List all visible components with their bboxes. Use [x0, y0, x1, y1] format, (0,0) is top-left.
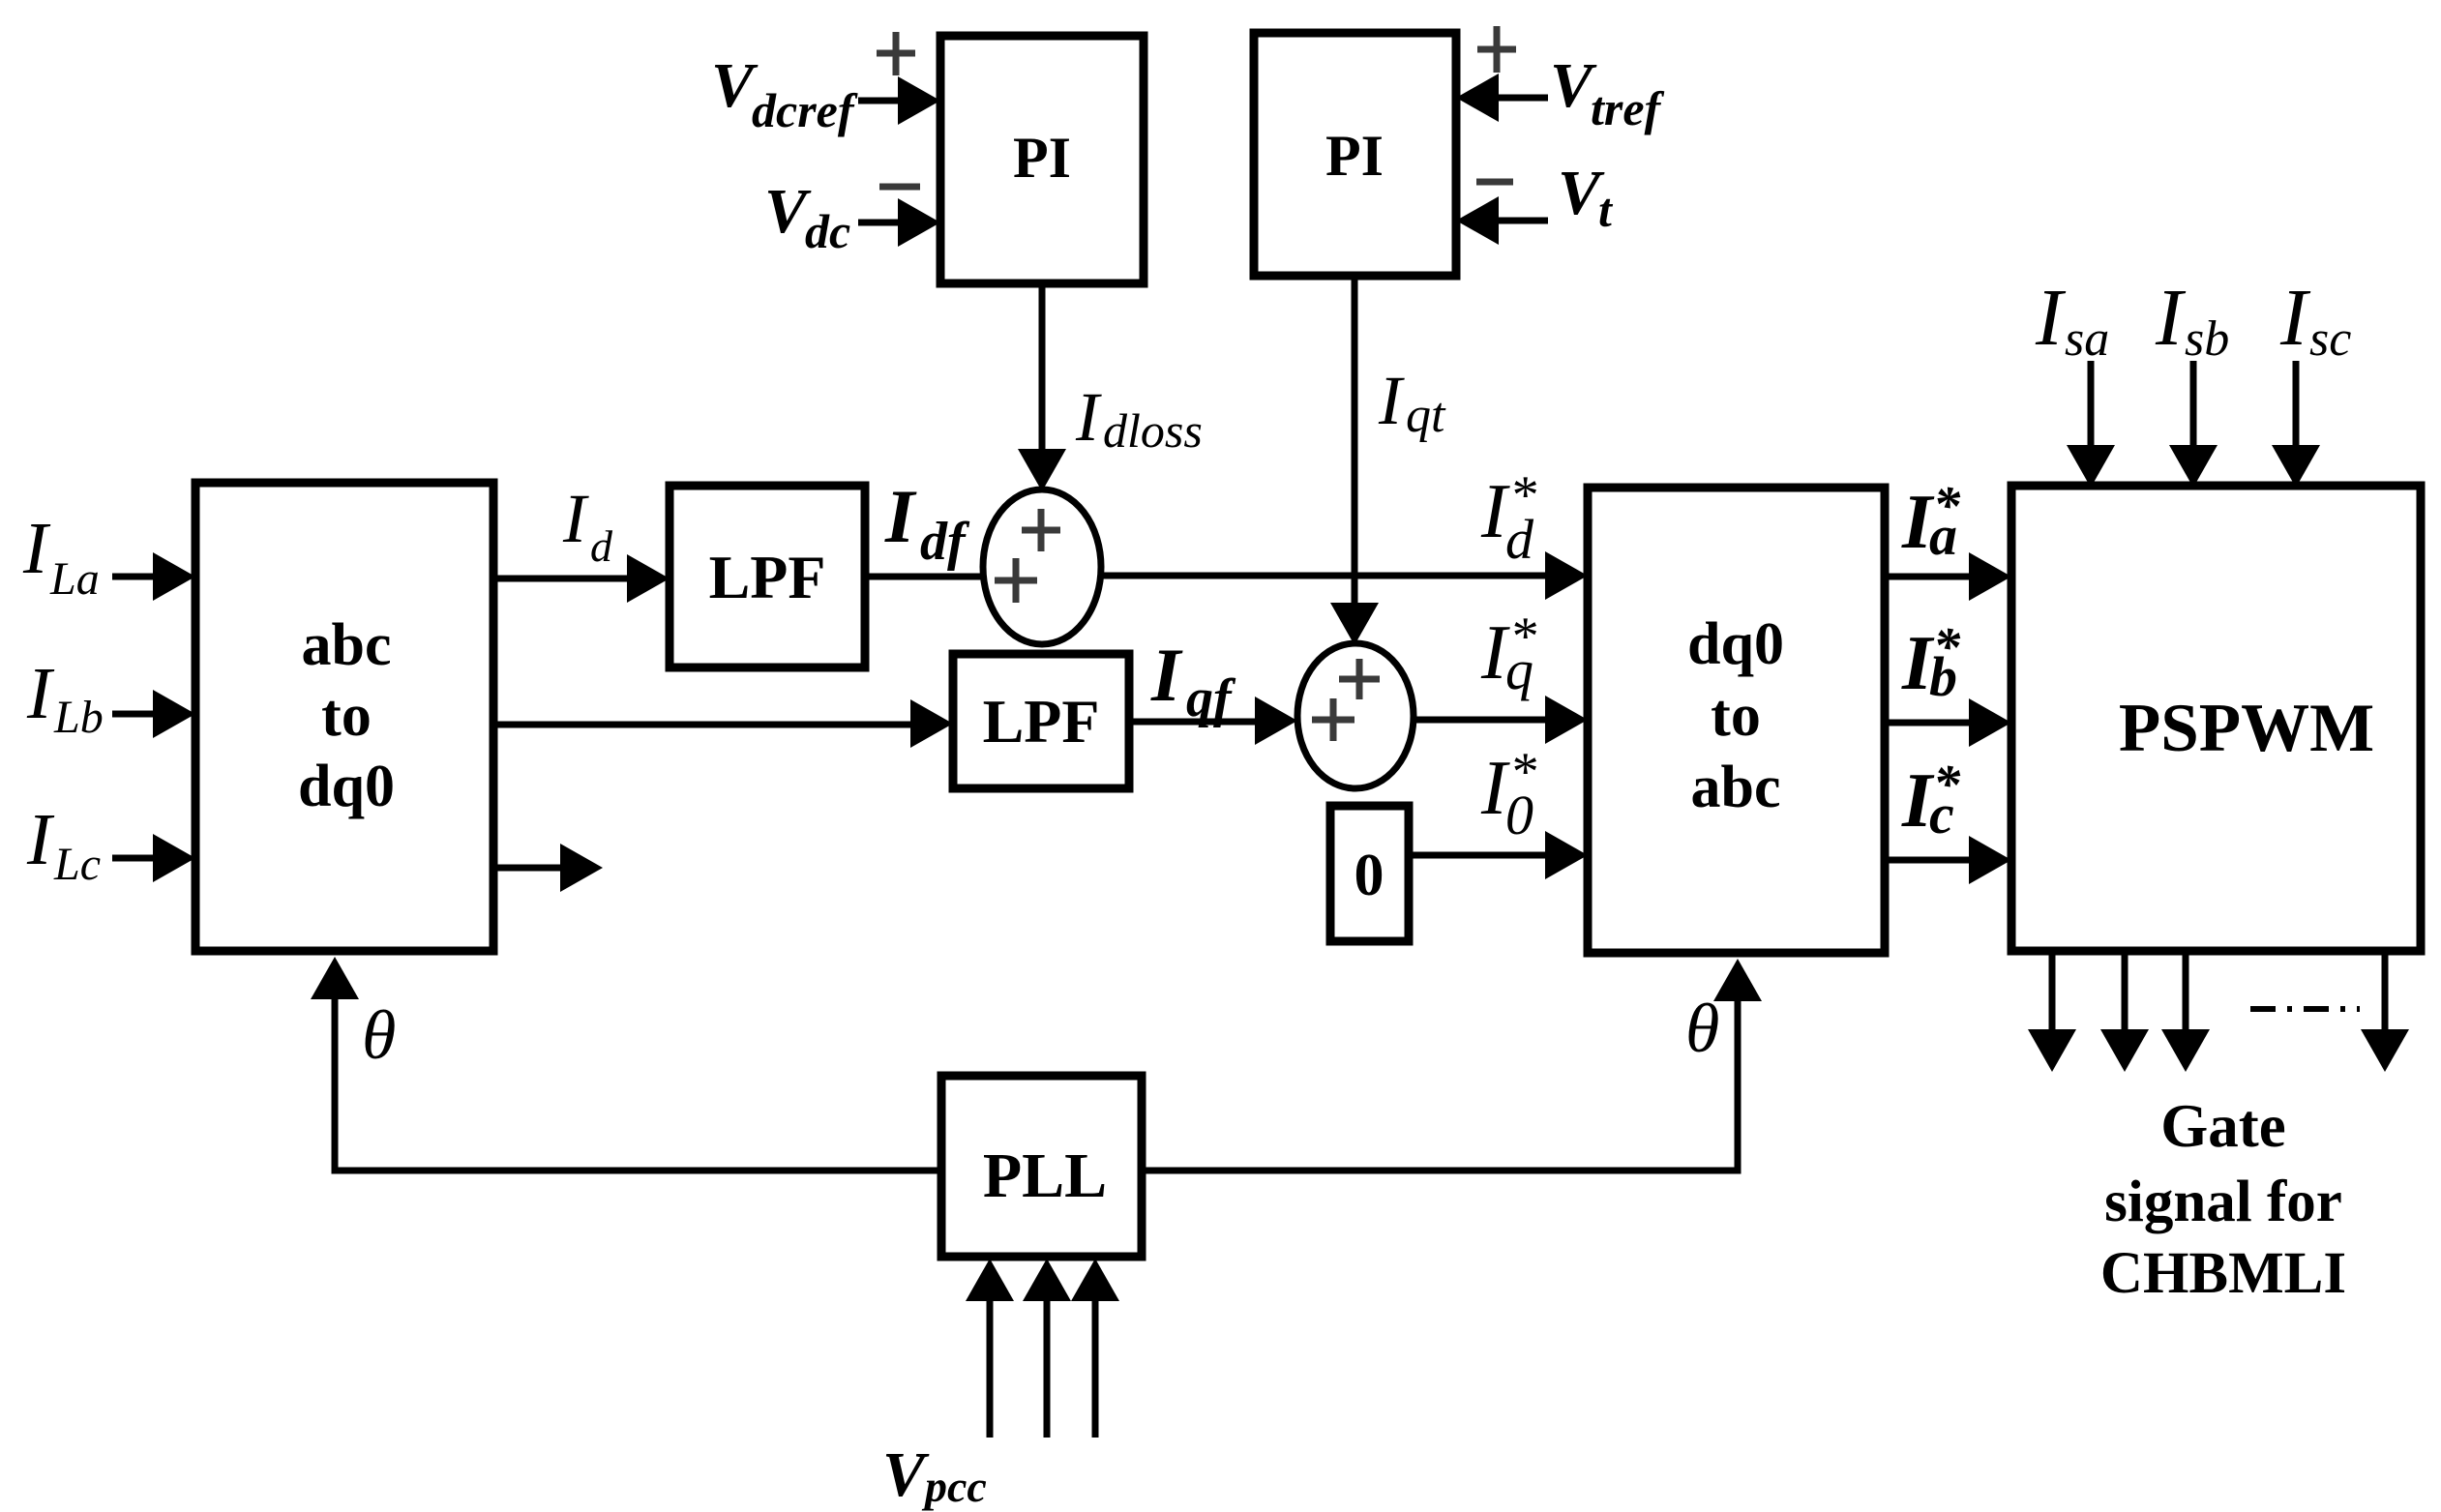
svg-text:q: q	[1505, 638, 1533, 701]
label ILc	[26, 799, 101, 890]
wire ILa into abc-dq0	[112, 552, 195, 601]
PI controller U2 (terminal voltage) box	[1254, 33, 1456, 276]
label ILb	[26, 653, 104, 743]
label Iqf	[1150, 633, 1236, 728]
wire ILc into abc-dq0	[112, 834, 195, 882]
dq0 to abc transform block U4	[1588, 488, 1885, 953]
svg-text:0: 0	[1354, 843, 1384, 908]
svg-text:I: I	[26, 799, 55, 880]
dash-dot ellipsis between gate outputs	[2250, 1006, 2360, 1012]
svg-text:to: to	[1711, 683, 1761, 749]
svg-text:dloss: dloss	[1103, 403, 1203, 458]
minus sign at PI U2 input	[1476, 179, 1513, 186]
svg-text:abc: abc	[1691, 755, 1781, 820]
wire Ib* from dq0-abc to PSPWM	[1885, 698, 2011, 747]
svg-text:sc: sc	[2309, 311, 2351, 367]
label Id*	[1480, 465, 1536, 571]
wire Id* from summing junction S1 to dq0-abc	[1099, 551, 1588, 600]
svg-text:dc: dc	[805, 204, 850, 258]
label Gate signal for CHBMLI	[2100, 1092, 2346, 1306]
wire Vtref into PI U2	[1456, 74, 1548, 122]
svg-text:I: I	[22, 508, 51, 589]
wire Iqt from PI U2 to summing junction S2	[1330, 276, 1379, 645]
svg-text:I: I	[2155, 273, 2187, 363]
svg-text:signal for: signal for	[2104, 1170, 2342, 1234]
svg-text:b: b	[1929, 645, 1957, 708]
svg-text:PSPWM: PSPWM	[2119, 691, 2374, 766]
plus sign at PI U2 input	[1477, 26, 1516, 73]
svg-text:dq0: dq0	[1687, 611, 1784, 677]
summing junction S2 (q-axis)	[1297, 643, 1414, 788]
label Idf	[884, 474, 970, 572]
summing junction S1 (d-axis)	[983, 489, 1101, 644]
label Idloss	[1075, 378, 1203, 458]
wire Idloss from PI U1 to summing junction S1	[1018, 283, 1066, 491]
svg-text:Gate: Gate	[2160, 1092, 2285, 1160]
wire ILb into abc-dq0	[112, 690, 195, 738]
wire 0-axis stub out of abc-dq0	[493, 844, 603, 892]
svg-text:c: c	[1929, 783, 1954, 845]
wire Vpcc input 3 into PLL	[1071, 1259, 1119, 1438]
wire Id from abc-dq0 to LPF1	[493, 554, 670, 603]
wire Isa into PSPWM	[2067, 361, 2115, 488]
wire Idf from LPF1 to summing junction S1	[862, 574, 985, 580]
label Ic*	[1901, 755, 1961, 845]
wire Ic* from dq0-abc to PSPWM	[1885, 836, 2011, 884]
gate output wire 1 from PSPWM	[2028, 951, 2076, 1072]
svg-text:tref: tref	[1591, 81, 1665, 135]
wire Vdc into PI U1	[858, 198, 940, 247]
wire I0* from 0 block to dq0-abc	[1409, 831, 1588, 879]
label Vdc	[764, 176, 850, 258]
label Ib*	[1901, 617, 1961, 708]
svg-text:d: d	[1505, 508, 1534, 571]
svg-text:I: I	[884, 474, 917, 558]
svg-text:abc: abc	[302, 612, 392, 678]
svg-text:qt: qt	[1406, 388, 1446, 443]
label Vpcc	[882, 1439, 987, 1511]
low-pass filter LPF2 (q-axis) box	[953, 654, 1129, 788]
svg-text:I: I	[2279, 273, 2311, 363]
label Vdcref	[711, 50, 858, 137]
plus sign at PI U1 input	[877, 32, 915, 75]
gate output wire 3 from PSPWM	[2161, 951, 2210, 1072]
low-pass filter LPF1 (d-axis) box	[670, 486, 865, 667]
label Iqt	[1378, 362, 1446, 443]
svg-text:PI: PI	[1325, 124, 1384, 188]
svg-text:t: t	[1598, 183, 1614, 237]
label Id	[562, 480, 613, 571]
svg-text:θ: θ	[362, 996, 396, 1074]
svg-text:Lb: Lb	[53, 692, 104, 743]
svg-text:PLL: PLL	[983, 1141, 1107, 1211]
svg-text:Lc: Lc	[53, 839, 101, 890]
label Ia*	[1901, 476, 1961, 567]
svg-text:dq0: dq0	[298, 754, 395, 819]
svg-text:PI: PI	[1013, 126, 1071, 190]
wire Ia* from dq0-abc to PSPWM	[1885, 552, 2011, 601]
label Isa	[2035, 273, 2109, 367]
wire Isc into PSPWM	[2272, 361, 2320, 488]
wire Iq from abc-dq0 to LPF2	[493, 699, 953, 748]
wire Isb into PSPWM	[2169, 361, 2218, 488]
svg-text:I: I	[562, 480, 589, 557]
wire theta from PLL to abc-dq0	[311, 957, 941, 1171]
svg-text:I: I	[26, 653, 55, 734]
gate output wire 4 from PSPWM	[2361, 951, 2409, 1072]
svg-text:La: La	[49, 553, 100, 605]
PI controller U1 (dc-link voltage) box	[940, 36, 1144, 283]
svg-text:pcc: pcc	[921, 1462, 987, 1511]
abc to dq0 transform block U3	[195, 483, 493, 951]
svg-text:I: I	[1075, 378, 1102, 456]
svg-text:θ: θ	[1685, 990, 1719, 1067]
svg-text:dcref: dcref	[752, 83, 858, 137]
minus sign at PI U1 input	[879, 184, 920, 191]
svg-text:LPF: LPF	[709, 543, 826, 611]
svg-text:to: to	[321, 683, 372, 749]
svg-text:V: V	[882, 1439, 930, 1510]
svg-text:sb: sb	[2185, 311, 2229, 367]
wire Vpcc input 1 into PLL	[966, 1259, 1014, 1438]
svg-text:0: 0	[1505, 784, 1533, 846]
svg-text:I: I	[1150, 633, 1183, 717]
label Isb	[2155, 273, 2229, 367]
label Isc	[2279, 273, 2351, 367]
constant 0 block	[1330, 806, 1409, 941]
svg-text:a: a	[1929, 504, 1957, 567]
wire theta from PLL to dq0-abc	[1142, 959, 1762, 1171]
label Vtref	[1550, 50, 1665, 135]
svg-text:df: df	[920, 512, 970, 572]
label Iq*	[1480, 607, 1536, 701]
PSPWM modulator block U5	[2011, 486, 2421, 951]
svg-text:sa: sa	[2065, 311, 2109, 367]
wire Iq* from summing junction S2 to dq0-abc	[1412, 696, 1588, 744]
svg-text:d: d	[590, 521, 613, 571]
wire Vpcc input 2 into PLL	[1023, 1259, 1071, 1438]
svg-text:qf: qf	[1186, 668, 1236, 728]
svg-text:I: I	[1378, 362, 1405, 439]
wire Vdcref into PI U1	[858, 76, 940, 125]
svg-text:LPF: LPF	[983, 687, 1100, 756]
PLL block U6	[941, 1076, 1142, 1257]
wire Vt into PI U2	[1456, 196, 1548, 245]
svg-text:I: I	[2035, 273, 2067, 363]
wire Iqf from LPF2 to summing junction S2	[1129, 697, 1297, 745]
label ILa	[22, 508, 100, 605]
label Vt	[1558, 158, 1614, 237]
svg-text:CHBMLI: CHBMLI	[2100, 1241, 2346, 1306]
label I0*	[1480, 742, 1536, 846]
gate output wire 2 from PSPWM	[2100, 951, 2149, 1072]
